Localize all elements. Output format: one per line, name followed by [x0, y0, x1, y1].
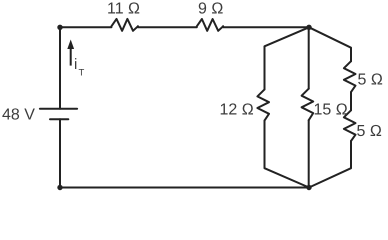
svg-text:T: T [79, 68, 85, 79]
svg-text:15 Ω: 15 Ω [314, 101, 348, 118]
node bottom-left [57, 185, 62, 190]
svg-text:12 Ω: 12 Ω [220, 102, 254, 119]
battery V1 long plate [40, 108, 77, 110]
node top-right [306, 25, 311, 30]
resistor R6 5 ohm (lower) [344, 110, 356, 141]
current arrow iT head [67, 40, 74, 50]
wire diagonal top node to R3 branch [265, 27, 310, 89]
wire left vertical top (node to battery) [59, 27, 61, 108]
wire right branch bottom diagonal [309, 141, 351, 188]
svg-text:11 Ω: 11 Ω [107, 0, 140, 17]
wire left vertical bottom (battery to bottom node) [59, 119, 61, 187]
node bottom-right [306, 185, 311, 190]
resistor R2 9 ohm [197, 19, 223, 31]
wire R3 bottom diagonal to bottom node [265, 121, 310, 188]
resistor R5 5 ohm (upper) [344, 61, 356, 92]
wire top-left to R1 [60, 26, 111, 28]
resistor R3 12 ohm [257, 89, 269, 120]
wire bottom [60, 187, 309, 189]
wire 15-ohm branch top [308, 27, 310, 88]
svg-text:48 V: 48 V [2, 106, 35, 123]
resistor R4 15 ohm [302, 89, 314, 121]
wire diagonal top node to right branch [309, 27, 351, 61]
svg-text:9 Ω: 9 Ω [198, 0, 223, 17]
battery V1 short plate [50, 118, 68, 120]
svg-text:i: i [74, 56, 77, 73]
current arrow iT shaft [70, 47, 72, 66]
wire R2 to top-right node [223, 26, 309, 27]
wire R1 to R2 [138, 26, 197, 27]
resistor R1 11 ohm [111, 19, 137, 31]
svg-text:5 Ω: 5 Ω [358, 71, 383, 88]
wire between 5-ohm resistors [350, 92, 352, 110]
node top-left [57, 25, 62, 30]
svg-text:5 Ω: 5 Ω [357, 123, 382, 140]
wire 15-ohm branch bottom [308, 120, 310, 187]
